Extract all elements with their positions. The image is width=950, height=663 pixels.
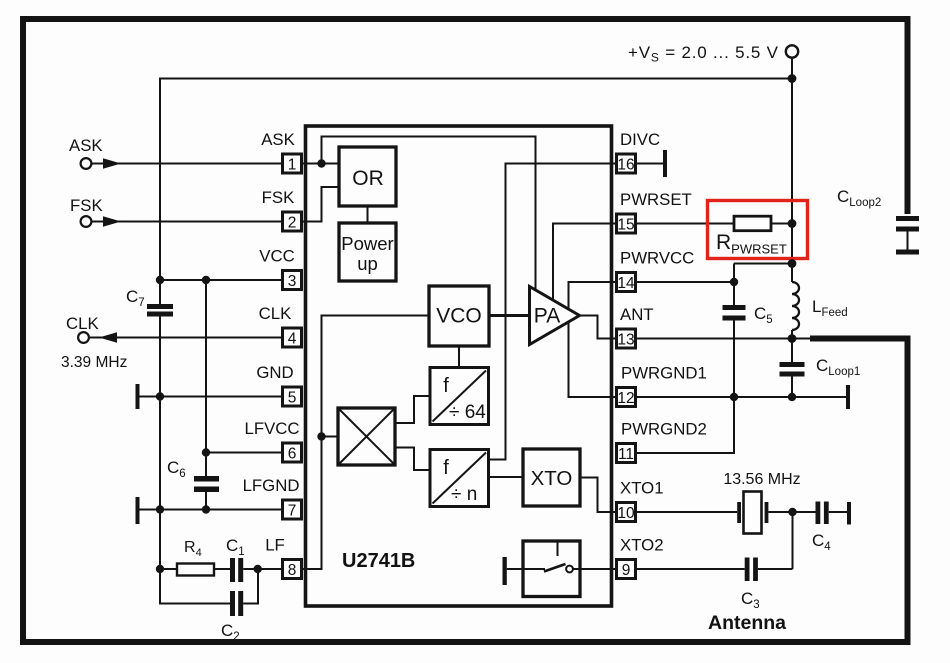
wire: pin 14 PWRVCC <box>637 281 734 283</box>
svg-text:up: up <box>357 253 378 274</box>
wire: VCO to PA <box>489 314 530 317</box>
wire: pin 10 to crystal <box>637 511 737 513</box>
capacitor C3 <box>745 558 758 582</box>
pin number 6 <box>283 443 302 463</box>
svg-text:VCO: VCO <box>436 305 482 328</box>
pin number 4 <box>283 328 302 348</box>
supply terminal +VS <box>786 45 798 57</box>
wire: pin 12 to PA bottom <box>569 323 617 398</box>
junction node C1/C2/pin8 <box>254 565 262 573</box>
svg-text:7: 7 <box>288 503 297 520</box>
svg-text:CLK: CLK <box>259 304 292 323</box>
wire: C2 branch down-left <box>160 569 230 604</box>
pin number 2 <box>283 212 302 232</box>
junction node R4 left <box>156 565 164 573</box>
Power up block <box>339 223 396 281</box>
wire: f/n to DIVC pin 16 <box>489 164 617 460</box>
wire: CLK pin 4 to CLK terminal <box>90 337 281 339</box>
svg-text:5: 5 <box>288 390 297 407</box>
capacitor C7 <box>147 281 173 317</box>
pin number 7 <box>283 500 302 520</box>
svg-text:Antenna: Antenna <box>708 612 786 634</box>
arrow CLK output <box>99 332 117 343</box>
svg-text:ASK: ASK <box>69 136 103 155</box>
wire: ground bar to switch <box>507 568 523 570</box>
wire: C5 node to supply rail <box>734 263 792 265</box>
svg-text:11: 11 <box>618 446 634 463</box>
pin number 13 <box>617 329 636 349</box>
svg-text:PWRGND1: PWRGND1 <box>621 364 707 383</box>
pin number 11 <box>617 444 636 464</box>
ground bar PWRGND1 <box>846 385 850 409</box>
wire: VCC pin 3 to supply rail <box>160 279 281 281</box>
switch block <box>523 541 580 597</box>
ASK input terminal <box>81 158 92 169</box>
svg-text:ASK: ASK <box>261 130 295 149</box>
ground bar at C4 <box>847 502 851 525</box>
junction node pin1/ASK <box>317 159 325 167</box>
svg-text:XTO: XTO <box>531 467 573 490</box>
OR gate box U1 <box>339 147 396 206</box>
ground bar at switch <box>503 557 507 585</box>
svg-text:2: 2 <box>288 215 297 232</box>
pin number 5 <box>283 387 302 407</box>
wire: C6 branch VCC to LFVCC <box>205 280 207 476</box>
junction node crystal/C4 <box>788 508 796 516</box>
svg-text:ANT: ANT <box>620 305 654 324</box>
wire: pin 15 to PA <box>553 224 616 301</box>
wire: left rail C7 down to GND/LFGND/R4 <box>159 317 161 570</box>
wire: C3 to crystal node <box>758 568 793 570</box>
wire: crystal to C4 <box>768 511 815 513</box>
pin number 3 <box>283 271 302 291</box>
svg-text:XTO1: XTO1 <box>620 479 664 498</box>
svg-text:3.39 MHz: 3.39 MHz <box>61 354 127 371</box>
svg-text:8: 8 <box>288 562 297 579</box>
svg-text:GND: GND <box>256 363 293 382</box>
wire: LFeed to ANT node <box>791 330 793 362</box>
svg-text:FSK: FSK <box>70 196 103 215</box>
svg-text:FSK: FSK <box>262 188 295 207</box>
wire: +VS terminal to supply rail <box>791 59 793 79</box>
svg-text:12: 12 <box>617 390 634 407</box>
svg-text:÷ 64: ÷ 64 <box>449 402 486 423</box>
crystal Q1 13.56 MHz <box>737 492 768 534</box>
op-amp PA <box>530 287 580 345</box>
pin number 8 <box>283 560 302 580</box>
wire: ASK input to pin 1 <box>92 163 282 165</box>
wire: C5 down through PWRGND1 to pin 11 <box>637 321 734 454</box>
pin number 1 <box>283 154 302 174</box>
wire: mixer to f64 <box>395 396 430 423</box>
wire: top supply rail <box>160 79 792 282</box>
svg-text:OR: OR <box>352 167 384 190</box>
svg-text:13.56 MHz: 13.56 MHz <box>723 471 800 488</box>
svg-text:9: 9 <box>622 562 631 579</box>
capacitor C6 <box>194 476 219 510</box>
wire: pin 1 to OR gate <box>303 163 339 165</box>
open-end terminal below CLoop2 <box>896 250 919 255</box>
capacitor C5 <box>723 305 746 321</box>
wire: mixer input from LF/VCO line <box>322 436 339 438</box>
wire: C1 to pin 8 <box>243 568 281 570</box>
wire: pin 15 to RPWRSET <box>637 223 734 225</box>
pin number 10 <box>617 503 636 523</box>
resistor RPWRSET <box>734 216 771 231</box>
wire: supply rail down right side <box>791 79 793 283</box>
wire: OR to Power up <box>367 206 369 223</box>
FSK input terminal <box>81 216 92 227</box>
junction node RPWRSET/rail <box>788 219 797 228</box>
pin number 12 <box>617 388 636 408</box>
junction node VCC rail <box>156 276 164 284</box>
wire: GND pin 5 <box>137 396 281 398</box>
capacitor CLoop2 <box>896 216 919 250</box>
wire: LFVCC pin 6 <box>206 452 281 454</box>
arrow ASK input <box>103 158 121 169</box>
wire: PA output to ANT pin 13 <box>580 316 617 339</box>
svg-text:PA: PA <box>534 305 560 328</box>
IC body U2741B <box>306 126 612 606</box>
junction node VCC/C6 <box>202 276 210 284</box>
wire: FSK input to pin 2 <box>92 221 282 223</box>
wire: R4 line to C1 <box>160 568 230 570</box>
wire: LF pin 8 to VCO input <box>303 316 429 570</box>
wire: XTO to pin 10 <box>580 478 616 513</box>
CLK output terminal <box>78 332 89 343</box>
svg-text:16: 16 <box>617 157 634 174</box>
junction node PWRGND1/C5 <box>730 393 738 401</box>
wire: ASK node up and to PA modulation input <box>322 137 536 292</box>
svg-text:XTO2: XTO2 <box>620 536 664 555</box>
arrow FSK input <box>103 216 121 227</box>
svg-text:10: 10 <box>617 505 635 522</box>
wire: PWRGND1 pin 12 <box>637 396 846 398</box>
wire: LFGND pin 7 <box>137 509 281 511</box>
junction node ANT/LFeed/loop <box>788 334 797 343</box>
svg-text:÷ n: ÷ n <box>451 484 477 505</box>
junction node LFGND/C6 <box>202 505 210 513</box>
wire: pin 2 to OR gate <box>303 187 339 222</box>
pin number 16 <box>617 154 636 174</box>
wire: switch to pin 9 <box>580 568 616 570</box>
svg-text:f: f <box>443 457 449 479</box>
wire: CLoop1 to PWRGND1 line <box>791 377 793 398</box>
inductor LFeed <box>792 282 799 330</box>
wire: DIVC pin 16 stub <box>637 163 663 165</box>
wire: RPWRSET to supply rail <box>771 223 792 225</box>
wire: crystal node down to C3 line <box>792 512 794 569</box>
mixer block <box>338 408 395 465</box>
junction node PWRGND1/CLoop1 <box>788 393 796 401</box>
svg-text:3: 3 <box>288 273 297 290</box>
resistor R4 <box>177 564 214 576</box>
svg-text:PWRSET: PWRSET <box>620 190 692 209</box>
svg-text:4: 4 <box>288 331 297 348</box>
capacitor C2 <box>230 591 243 616</box>
divider block f/n <box>430 450 489 507</box>
svg-text:LFGND: LFGND <box>243 476 300 495</box>
wire: C5 branch vertical <box>733 264 735 306</box>
wire: pin 9 to C3 <box>637 568 745 570</box>
svg-text:14: 14 <box>617 275 635 292</box>
junction node supply rail top <box>788 74 797 83</box>
svg-text:Power: Power <box>341 233 393 254</box>
capacitor C4 <box>816 502 829 525</box>
XTO block <box>523 449 580 506</box>
svg-text:1: 1 <box>288 157 297 174</box>
junction node mixer input <box>317 432 325 440</box>
wire: mixer to f/n <box>395 448 430 471</box>
pin number 15 <box>617 214 636 234</box>
wire: VCO to divider f64 <box>458 346 460 368</box>
svg-text:15: 15 <box>617 217 634 234</box>
wire: pin 14 to PA top <box>569 282 617 309</box>
ground bar GND pin5 <box>136 384 140 409</box>
svg-text:+VS = 2.0 ... 5.5 V: +VS = 2.0 ... 5.5 V <box>628 43 779 65</box>
VCO block <box>429 286 489 346</box>
svg-text:6: 6 <box>288 446 297 463</box>
svg-text:13: 13 <box>617 332 634 349</box>
svg-text:PWRVCC: PWRVCC <box>620 249 694 268</box>
svg-text:VCC: VCC <box>259 247 294 266</box>
junction node PWRVCC/C5 <box>730 278 738 286</box>
wire: C2 up to LF node <box>243 569 258 604</box>
svg-text:DIVC: DIVC <box>620 130 660 149</box>
svg-text:CLK: CLK <box>66 314 99 333</box>
capacitor C1 <box>230 558 243 582</box>
svg-text:PWRGND2: PWRGND2 <box>621 420 707 439</box>
highlight box around RPWRSET <box>708 201 808 259</box>
wire: C4 to ground bar <box>829 511 847 513</box>
junction node GND rail <box>156 392 164 400</box>
wire: f/n to XTO <box>489 476 524 478</box>
divider block f/64 <box>430 368 489 425</box>
svg-text:U2741B: U2741B <box>342 550 415 572</box>
open-end terminal DIVC <box>663 150 667 177</box>
pin number 14 <box>617 273 636 293</box>
junction node LFVCC/C6 <box>202 448 210 456</box>
ground bar LFGND pin7 <box>136 497 140 524</box>
svg-text:LF: LF <box>265 536 285 555</box>
svg-text:f: f <box>443 375 449 397</box>
capacitor CLoop1 <box>780 362 805 377</box>
pin number 9 <box>617 560 636 580</box>
wire: ANT pin 13 to loop <box>637 338 810 340</box>
junction node C5 branch/rail <box>788 259 797 268</box>
svg-text:LFVCC: LFVCC <box>244 419 299 438</box>
junction node LFGND rail <box>156 505 164 513</box>
